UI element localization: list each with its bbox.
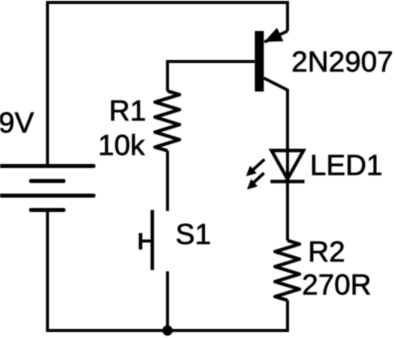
transistor Q1 2N2907 xyxy=(255,28,288,151)
battery plate short bottom xyxy=(31,208,64,212)
transistor emitter wire xyxy=(265,31,288,42)
transistor emitter arrow xyxy=(264,28,283,42)
transistor base bar xyxy=(255,31,264,92)
junction node dot xyxy=(162,325,172,335)
battery plate long top xyxy=(0,164,94,168)
wire top rail xyxy=(48,3,288,167)
svg-text:9V: 9V xyxy=(0,108,35,140)
LED cathode bar xyxy=(271,180,305,183)
battery plate long lower xyxy=(0,194,94,198)
wire R1 to switch xyxy=(166,151,169,211)
LED light arrow lower xyxy=(247,173,264,190)
svg-text:2N2907: 2N2907 xyxy=(292,46,394,78)
switch S1 pushbutton xyxy=(141,210,153,270)
transistor collector wire xyxy=(264,78,288,151)
battery B1 9V xyxy=(0,166,94,210)
LED D1 triangle xyxy=(272,151,304,180)
LED light arrow upper xyxy=(246,159,265,176)
wire through LED xyxy=(286,151,289,241)
wire switch to bottom rail xyxy=(166,271,169,330)
svg-text:R1: R1 xyxy=(109,96,146,128)
switch plunger shaft xyxy=(141,240,153,243)
switch contact bar xyxy=(151,210,155,270)
wire bottom rail xyxy=(48,210,288,331)
resistor R1 xyxy=(155,91,180,151)
wire R2 to bottom rail xyxy=(286,300,289,332)
svg-text:S1: S1 xyxy=(176,219,211,251)
svg-text:10k: 10k xyxy=(98,130,145,162)
resistor R2 xyxy=(275,241,300,301)
svg-text:LED1: LED1 xyxy=(310,150,383,182)
wire base branch xyxy=(168,62,255,92)
battery plate short upper xyxy=(31,179,64,183)
svg-text:R2: R2 xyxy=(308,237,345,269)
svg-text:270R: 270R xyxy=(302,270,371,302)
switch plunger cap xyxy=(139,233,143,250)
